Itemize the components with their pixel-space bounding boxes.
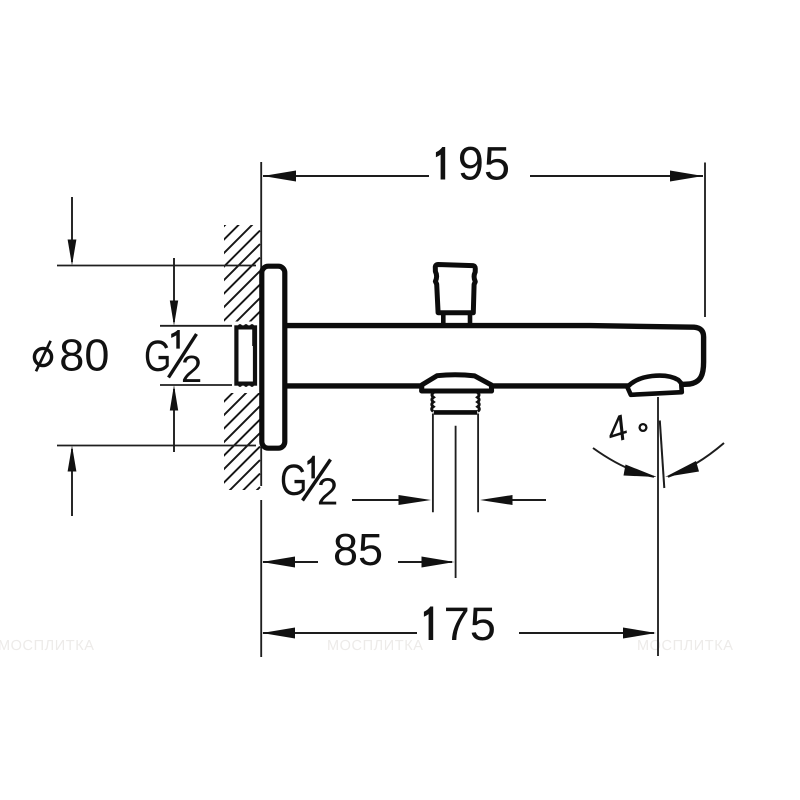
svg-text:2: 2 [317,472,338,514]
bottom connector threads left [432,393,434,412]
spout body bottom line left [286,383,422,388]
G1/2 left dimension arrows [170,258,178,452]
connector center line [455,426,457,578]
dimension 175 left arrow [262,628,295,639]
svg-text:4: 4 [602,406,633,451]
bottom connector threads right [477,393,479,412]
dimension ø80 lower arrow [68,446,77,517]
dimension 175 line [263,632,654,634]
angle arc right [668,443,724,477]
angle arc left [593,448,654,477]
ø80 label [34,348,51,365]
G1/2 left label [144,330,202,391]
bottom connector dome [422,375,492,391]
svg-text:G: G [144,332,171,381]
extension line right (spout tip) [704,163,706,318]
angle arc left arrowhead [624,465,657,478]
connector pipe outline lines [433,414,478,513]
svg-text:95: 95 [458,137,510,190]
spout body bottom line right [492,383,629,388]
G1/2 bottom label [280,456,338,514]
outlet tilted 4deg line [660,421,665,489]
svg-text:МОСПЛИТКА: МОСПЛИТКА [637,638,734,654]
G1/2 bottom dimension right arrow [480,495,546,505]
dimension 175 right arrow [623,628,656,639]
dimension ø80 upper arrow [68,197,77,266]
svg-text:85: 85 [333,524,383,575]
wall flange [262,266,285,448]
ø80 extension line top [57,265,256,267]
dimension 195 line [263,175,703,177]
dimension 195 right arrow [670,171,703,182]
G1/2 bottom dimension left arrow [352,495,431,505]
wall face / extension line [260,162,262,657]
wall hatching [200,190,260,547]
svg-text:МОСПЛИТКА: МОСПЛИТКА [327,638,424,654]
dimension 195 label digit 1 [436,147,445,180]
dimension 85 right arrow [422,557,455,568]
dimension 175 label digit 1 [424,607,433,641]
G1/2 left extension lines [160,325,232,327]
degree circle [640,424,647,431]
svg-text:80: 80 [59,330,109,381]
dimension 85 left arrow [262,557,295,568]
diverter knob [435,265,475,313]
spout body top line [286,326,704,385]
threaded wall nipple [236,324,255,387]
spout outlet lip [627,376,682,395]
outlet axis extension line [657,397,659,656]
dimension 85 line [263,561,452,563]
ø80 extension line bottom [57,445,256,447]
svg-text:МОСПЛИТКА: МОСПЛИТКА [0,638,95,654]
svg-text:75: 75 [444,597,496,650]
bottom connector thread base [434,410,477,415]
dimension 195 left arrow [263,171,296,182]
diverter knob stem [443,313,470,326]
angle arc right arrowhead [665,461,699,477]
